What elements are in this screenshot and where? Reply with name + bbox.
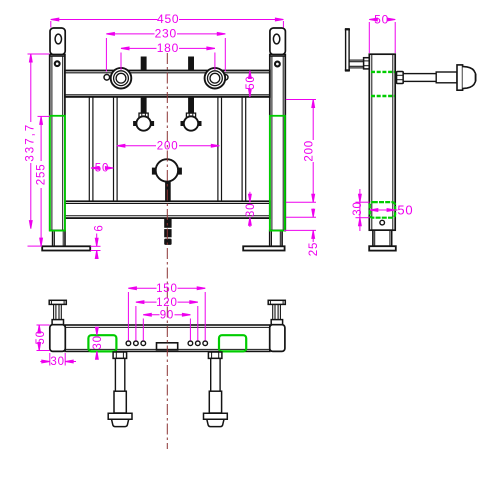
dim 6 foot plate	[90, 245, 100, 247]
right leg	[208, 352, 222, 358]
dim 200 middle	[117, 145, 156, 147]
center notch	[157, 343, 178, 350]
svg-text:30: 30	[92, 335, 104, 349]
anchor rod	[403, 74, 436, 82]
svg-text:50: 50	[397, 203, 413, 218]
clamp circle left	[133, 121, 137, 126]
svg-text:50: 50	[95, 163, 109, 175]
stud below rail left	[141, 97, 147, 113]
stud above rail left	[141, 57, 147, 72]
right foot plate	[243, 246, 284, 250]
right T-pin	[268, 300, 285, 304]
green dashed box lower (side)	[370, 202, 395, 218]
flush pipe stem	[165, 181, 171, 201]
svg-text:120: 120	[156, 297, 178, 309]
dim 230	[105, 38, 107, 72]
left leg	[113, 352, 127, 358]
green highlight left post	[50, 116, 65, 231]
dim 150	[127, 292, 129, 341]
side stub	[373, 230, 392, 246]
dim 30 side	[356, 201, 370, 203]
green box bottom left	[88, 335, 116, 351]
stud below rail right	[188, 97, 194, 113]
left top tab	[50, 28, 65, 55]
left stub	[53, 231, 65, 247]
green box bottom right	[219, 335, 246, 351]
green dashed rail section top	[371, 71, 395, 73]
right stub	[270, 231, 282, 247]
svg-text:150: 150	[156, 283, 178, 295]
svg-text:30: 30	[50, 356, 64, 368]
right post	[270, 55, 286, 231]
svg-text:255: 255	[36, 164, 48, 186]
collar left	[139, 113, 148, 118]
dim 180	[120, 53, 122, 71]
dim 25 right	[286, 216, 316, 218]
collar right	[186, 113, 195, 118]
svg-text:30: 30	[245, 203, 257, 217]
svg-text:180: 180	[157, 41, 179, 55]
side foot plate	[369, 246, 396, 250]
wall bracket bar	[346, 29, 350, 71]
dim 50 side top	[368, 22, 370, 53]
center line vertical	[166, 53, 168, 449]
left fitting	[111, 68, 132, 89]
left foot plate	[42, 246, 90, 250]
dim 50 struts	[91, 167, 96, 169]
bracket bolt rod	[349, 59, 364, 61]
flush pipe collar tabs	[152, 168, 156, 175]
bottom bar	[65, 325, 270, 351]
right post bolt	[275, 62, 280, 67]
dim 30 lower rail	[249, 192, 251, 202]
bottom holes	[126, 341, 131, 346]
dim 337,7 left	[28, 53, 50, 55]
anchor dome cap	[463, 66, 476, 88]
svg-text:200: 200	[157, 140, 179, 152]
dim 450	[50, 21, 52, 28]
right top tab	[270, 28, 286, 55]
left fitting tab circle	[104, 75, 110, 81]
right tab slot	[273, 34, 279, 44]
svg-text:90: 90	[160, 310, 174, 322]
green highlight right post	[270, 116, 285, 231]
svg-text:6: 6	[94, 224, 106, 231]
left end block	[50, 325, 66, 352]
right fitting	[205, 68, 226, 89]
dim 50 side green box	[370, 209, 398, 211]
dim 255 left	[38, 115, 50, 117]
svg-text:337,7: 337,7	[24, 123, 36, 162]
left post	[50, 55, 65, 231]
left tab slot	[55, 34, 61, 44]
strut 3	[217, 97, 219, 201]
dim 50 rail height	[249, 71, 251, 76]
strut 4	[241, 97, 243, 201]
strut 1	[88, 97, 90, 201]
dim 30 bottom left	[49, 353, 51, 366]
svg-text:230: 230	[155, 27, 177, 41]
svg-text:450: 450	[157, 12, 179, 26]
dim 90	[142, 319, 144, 341]
dimension texts	[24, 12, 413, 368]
anchor rod nut	[397, 72, 404, 84]
svg-text:50: 50	[35, 330, 47, 344]
right fitting tab circle	[222, 75, 228, 81]
dim 200 right vertical	[286, 99, 316, 101]
bracket bolt nut	[364, 58, 370, 69]
left T-pin	[49, 300, 66, 304]
clamp circle right	[181, 121, 185, 126]
anchor flange	[457, 65, 463, 90]
svg-text:50: 50	[245, 75, 257, 89]
flush pipe circle	[156, 159, 178, 181]
top rail	[65, 71, 270, 97]
svg-text:200: 200	[303, 140, 315, 162]
dim 50 bottom left	[37, 324, 50, 326]
lower rail	[65, 201, 270, 218]
right end block	[270, 325, 285, 352]
svg-text:50: 50	[374, 12, 389, 26]
dim 30 bottom green	[96, 327, 98, 335]
svg-text:30: 30	[352, 201, 364, 215]
svg-text:25: 25	[308, 242, 320, 256]
column	[369, 54, 395, 230]
anchor rod sleeve	[436, 72, 457, 83]
dim 120	[135, 306, 137, 341]
left post bolt	[55, 61, 60, 66]
stud above rail right	[188, 57, 194, 72]
side bolt hole	[380, 220, 385, 225]
flush pipe below rail (hidden, dashed thick)	[164, 218, 171, 228]
strut 2	[113, 97, 115, 201]
